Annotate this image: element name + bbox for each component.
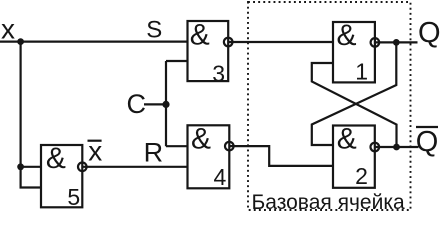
node x junction — [17, 38, 24, 45]
wire gate2 output to Qbar — [375, 146, 419, 148]
svg-text:x: x — [1, 13, 15, 44]
svg-text:C: C — [127, 89, 147, 119]
wire gate1 output to Q — [375, 41, 418, 43]
overbar of x label — [88, 140, 102, 142]
wire x input horizontal — [0, 40, 188, 42]
wire gate4 output to gate2 — [229, 146, 333, 166]
gate 2 output bubble — [371, 143, 380, 152]
node Q junction — [393, 39, 400, 46]
gate 5 body — [41, 145, 82, 207]
gate 1 body — [333, 22, 375, 82]
gate 4 body — [188, 125, 230, 188]
node x lower junction — [17, 163, 24, 170]
wire gate5 input1 — [21, 166, 41, 168]
node C junction — [162, 101, 169, 108]
gate 5 output bubble — [78, 163, 87, 172]
svg-text:5: 5 — [67, 184, 80, 210]
node Qbar junction — [393, 144, 400, 151]
wire S from gate3 to gate1 — [228, 41, 333, 43]
wire Qbar cross to gate1 input2 — [312, 63, 397, 147]
svg-text:Базовая ячейка: Базовая ячейка — [252, 191, 405, 213]
wire Q cross to gate2 input1 — [312, 42, 397, 145]
wire C vertical — [165, 61, 167, 146]
wire gate3 input2 — [166, 60, 188, 62]
gate 3 body — [188, 21, 229, 81]
svg-text:&: & — [337, 123, 357, 156]
gate 3 output bubble — [224, 38, 233, 47]
svg-text:4: 4 — [214, 164, 227, 190]
svg-text:3: 3 — [212, 60, 225, 86]
svg-text:&: & — [46, 142, 66, 175]
wire gate5 input2 — [21, 167, 41, 188]
wire gate4 input1 — [166, 145, 188, 147]
gate 2 body — [333, 126, 375, 188]
svg-text:S: S — [146, 17, 162, 44]
wire C stub — [144, 103, 166, 105]
overbar of Qbar label — [416, 126, 438, 128]
svg-text:2: 2 — [355, 163, 368, 189]
svg-text:R: R — [144, 138, 164, 168]
gate 4 output bubble — [225, 142, 234, 151]
svg-text:&: & — [337, 19, 357, 52]
svg-text:x: x — [88, 135, 102, 166]
wire R from gate5 to gate4 — [82, 166, 187, 168]
wire x vertical down — [20, 42, 22, 167]
svg-text:1: 1 — [355, 58, 368, 84]
svg-text:Q: Q — [416, 126, 439, 158]
gate 1 output bubble — [371, 38, 380, 47]
svg-text:&: & — [190, 19, 210, 52]
dotted box basic cell — [248, 2, 411, 210]
svg-text:&: & — [191, 122, 211, 155]
svg-text:Q: Q — [418, 17, 440, 49]
